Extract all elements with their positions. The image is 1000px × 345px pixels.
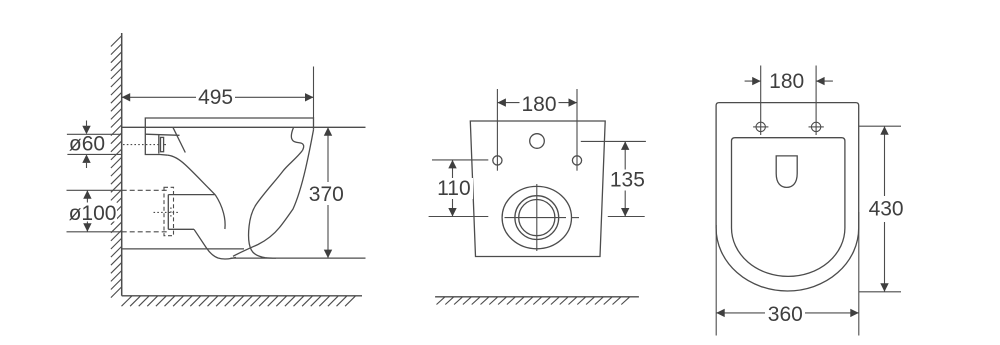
dim o100 extension lines xyxy=(67,190,122,232)
dashed outlet lines xyxy=(122,189,169,191)
connector cap rect xyxy=(161,137,164,151)
dim 370 line xyxy=(327,127,329,258)
outlet spigot left xyxy=(167,195,169,230)
middle ground line xyxy=(435,296,639,298)
top view outer seat xyxy=(716,103,859,291)
dim 360 arrows xyxy=(716,309,859,317)
label 180 middle xyxy=(520,95,559,113)
dim 430 extension lines xyxy=(859,126,901,292)
outlet spigot top xyxy=(168,194,215,196)
top view flush cup xyxy=(776,156,797,188)
label 370 xyxy=(307,182,346,205)
top view bolt hole right xyxy=(811,122,820,131)
label o100 xyxy=(68,203,117,222)
dim 370 arrows xyxy=(324,127,332,258)
middle drain crosshair xyxy=(505,184,580,251)
dim o60 extension lines xyxy=(67,134,122,154)
middle ground hatching xyxy=(437,297,630,305)
dim 135 extension lines xyxy=(581,141,646,216)
svg-text:135: 135 xyxy=(610,169,645,192)
dim 135 line xyxy=(624,141,626,216)
dim 430 arrows xyxy=(880,126,888,292)
mid dim 180 extension lines xyxy=(497,89,577,171)
middle view body trapezoid xyxy=(470,121,605,257)
floor xyxy=(122,295,362,297)
svg-text:180: 180 xyxy=(521,93,556,116)
mid dim 180 line xyxy=(497,102,577,104)
svg-text:370: 370 xyxy=(309,183,344,206)
floor hatching xyxy=(122,296,356,306)
svg-text:ø60: ø60 xyxy=(69,132,105,155)
top dim 180 extension lines xyxy=(745,66,833,136)
connector cap vertical xyxy=(158,135,160,154)
dim 430 line xyxy=(884,126,886,292)
dim 495 arrows xyxy=(122,93,314,101)
dim 495 line xyxy=(122,67,314,119)
dotted centerline o60 xyxy=(123,144,159,146)
svg-text:110: 110 xyxy=(437,177,470,200)
dim 110 extension lines xyxy=(429,160,489,217)
top view bolt hole left xyxy=(753,122,824,131)
toilet tank slab xyxy=(145,118,313,130)
dim 360 extension lines xyxy=(716,212,859,336)
dim o100 arrows xyxy=(83,190,91,232)
label 495 xyxy=(68,70,906,326)
label 135 xyxy=(608,170,647,191)
body underside diagonal xyxy=(194,229,236,259)
bracket inner line xyxy=(145,134,179,135)
lower body line at wall xyxy=(122,248,244,250)
dim o60 arrows xyxy=(82,126,90,163)
svg-text:495: 495 xyxy=(198,86,233,109)
rim hook xyxy=(291,128,303,151)
mid dim 180 arrows xyxy=(497,98,577,106)
top view inner seat xyxy=(732,138,845,277)
wall xyxy=(121,33,123,296)
middle inlet circle xyxy=(530,134,545,149)
top dim 180 arrows xyxy=(752,77,824,85)
svg-text:360: 360 xyxy=(768,303,803,326)
back slope line xyxy=(173,127,185,152)
outlet spigot bottom xyxy=(168,228,194,230)
dim 110 line xyxy=(452,160,454,217)
flush connector bracket xyxy=(145,127,168,155)
dim 110 arrows xyxy=(448,160,456,217)
wall hatching xyxy=(111,36,122,298)
middle bolt holes xyxy=(493,156,502,165)
svg-text:ø100: ø100 xyxy=(69,202,117,225)
dim 135 arrows xyxy=(621,141,629,216)
bottom reference line xyxy=(231,257,366,259)
label 360 xyxy=(765,304,805,322)
middle drain outer xyxy=(502,186,571,248)
middle drain inner xyxy=(519,200,555,236)
front outer curve xyxy=(233,130,314,257)
front inner curve xyxy=(249,150,303,258)
body back S-curve xyxy=(168,155,215,195)
trapway left curve xyxy=(215,195,225,229)
dim 495 right extension xyxy=(313,67,315,119)
svg-text:180: 180 xyxy=(769,70,804,93)
dim 360 line xyxy=(716,312,859,314)
label 110 xyxy=(434,178,473,199)
dashed outlet rect xyxy=(164,187,174,235)
top dim 180 tails xyxy=(745,80,761,82)
svg-text:430: 430 xyxy=(869,197,904,220)
outlet center mark xyxy=(154,211,179,213)
middle drain mid xyxy=(515,196,559,240)
top reference line xyxy=(122,126,366,128)
label 430 xyxy=(866,196,906,222)
